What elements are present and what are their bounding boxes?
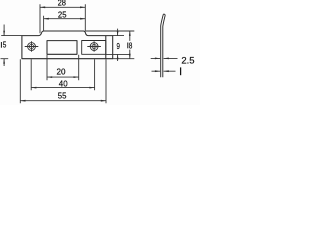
screw hole left outer — [28, 43, 36, 51]
arrowheads dim 55 — [20, 100, 25, 102]
side view profile left face — [161, 14, 164, 77]
dim 15 extension+lines — [1, 25, 22, 67]
arrowheads dim 28 — [40, 6, 45, 8]
side view profile right face — [163, 14, 165, 77]
hole centerlines left — [25, 41, 39, 52]
svg-text:20: 20 — [57, 67, 66, 77]
arrowheads dim 9 — [117, 31, 119, 36]
latch opening — [47, 41, 77, 55]
arrowheads dim 25 — [44, 18, 49, 20]
dim 20 lines — [47, 55, 79, 80]
svg-text:8: 8 — [129, 41, 133, 50]
arrowheads dim 2.5 — [155, 58, 160, 60]
fold line (right bend) — [105, 36, 107, 59]
dim 1 lines — [152, 70, 176, 72]
arrowheads dim 1 — [155, 70, 160, 72]
dim 25 lines — [44, 16, 86, 31]
screw hole right outer — [90, 43, 98, 51]
plate outline (front view) — [22, 31, 113, 59]
svg-text:40: 40 — [59, 78, 68, 88]
svg-text:55: 55 — [58, 90, 67, 100]
right side extension lines — [85, 31, 134, 59]
screw hole left inner — [29, 44, 33, 48]
svg-text:5: 5 — [3, 41, 7, 50]
digit 1 bar of label 18 — [127, 43, 129, 49]
arrowheads dim 18 — [129, 31, 131, 36]
dim 18 lines — [129, 31, 131, 59]
svg-text:9: 9 — [117, 41, 121, 51]
arrowheads dim 20 — [47, 76, 52, 78]
svg-text:25: 25 — [58, 9, 67, 19]
digit 1 bar of label 15 — [0, 42, 2, 48]
svg-text:2.5: 2.5 — [181, 56, 194, 67]
dim 2.5 lines — [151, 57, 178, 59]
arrowheads dim 15 — [3, 31, 5, 36]
dim 55 lines — [20, 59, 106, 103]
dim 9 lines — [117, 29, 119, 61]
label 1 (side view) — [180, 67, 182, 75]
svg-text:28: 28 — [58, 0, 67, 8]
arrowheads dim 40 — [31, 87, 36, 89]
right recess — [82, 41, 106, 55]
dim 28 lines — [40, 4, 85, 33]
hole centerlines right — [87, 41, 101, 52]
dim 40 lines — [31, 59, 94, 90]
screw hole right inner — [92, 44, 96, 48]
